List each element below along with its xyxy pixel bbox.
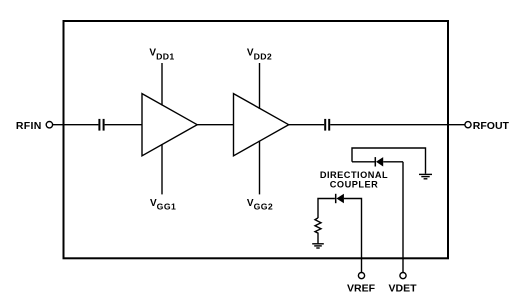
terminal VDET: [400, 273, 406, 279]
wire A1 to A2: [197, 124, 233, 126]
outer box: [64, 21, 449, 258]
svg-text:RFOUT: RFOUT: [473, 120, 510, 132]
coupled line top: [352, 148, 426, 174]
svg-text:VREF: VREF: [347, 283, 376, 295]
wire RFIN to C1: [53, 124, 99, 126]
wire D1 to VDET line: [383, 161, 403, 163]
ground G2: [312, 244, 324, 248]
wire VDD1 to A1: [161, 63, 163, 106]
wire VGG1 to A1: [161, 144, 163, 194]
wire coupled line to diode D1: [352, 161, 375, 163]
wire C1 to A1: [105, 124, 142, 126]
terminal VREF: [358, 273, 364, 279]
terminal RFOUT: [465, 122, 471, 128]
diode D1: [375, 157, 383, 166]
ground G1: [419, 174, 432, 178]
diode D2: [336, 194, 344, 203]
wire VDET vertical: [402, 162, 404, 273]
wire A2 to C2: [289, 124, 325, 126]
wire C2 to RFOUT: [330, 124, 465, 126]
resistor R1: [315, 218, 321, 244]
terminal RFIN: [46, 122, 52, 128]
wire D2 to VREF line: [344, 199, 362, 273]
capacitor C1: [99, 119, 103, 131]
svg-text:RFIN: RFIN: [16, 120, 42, 132]
svg-text:DIRECTIONAL: DIRECTIONAL: [320, 170, 388, 180]
wire VDD2 to A2: [259, 63, 261, 109]
capacitor C2: [325, 119, 329, 131]
wire VGG2 to A2: [259, 141, 261, 195]
op-amp A2: [234, 94, 289, 156]
op-amp A1: [142, 94, 197, 156]
svg-text:VDET: VDET: [388, 283, 417, 295]
svg-text:COUPLER: COUPLER: [330, 180, 378, 190]
wire reference branch left: [318, 199, 335, 219]
